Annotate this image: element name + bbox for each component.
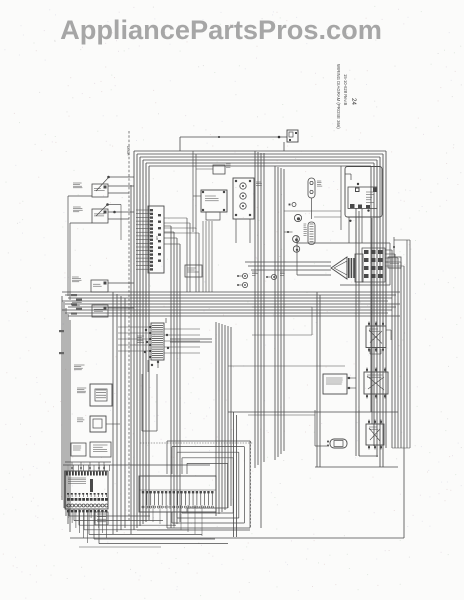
svg-text:AB: AB [155,236,159,240]
svg-text:15-10-628 Rev.B: 15-10-628 Rev.B [343,74,348,106]
svg-text:AppliancePartsPros.com: AppliancePartsPros.com [60,14,382,45]
svg-text:24: 24 [350,98,357,105]
svg-text:DOOR: DOOR [126,146,130,156]
svg-text:WIRING DIAGRAM (PROSE 366): WIRING DIAGRAM (PROSE 366) [336,64,341,129]
